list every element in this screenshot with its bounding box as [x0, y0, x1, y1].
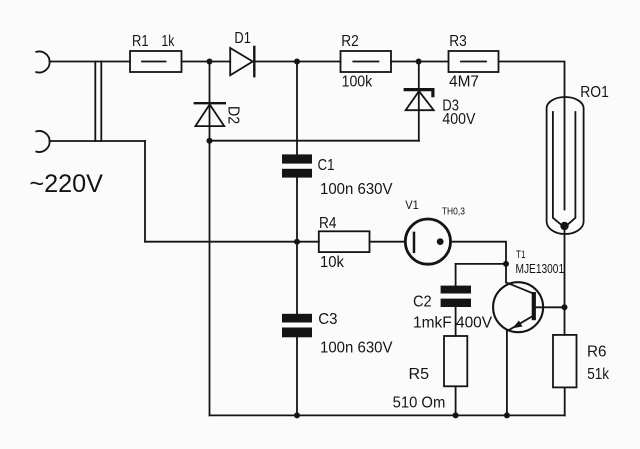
junction node R4 row	[294, 239, 300, 245]
svg-text:400V: 400V	[442, 111, 476, 128]
wire C1 bottom to C3 top	[296, 178, 298, 314]
wire R5 bottom stem	[455, 386, 457, 415]
mains cord double line	[95, 62, 101, 142]
svg-text:R2: R2	[341, 33, 359, 50]
resistor R1	[130, 51, 182, 72]
resistor R5	[444, 336, 467, 386]
junction node R5 bottom rail	[453, 412, 459, 418]
mains connector top contact	[36, 52, 49, 73]
svg-text:V1: V1	[405, 198, 419, 212]
wire node to R4	[297, 241, 319, 243]
svg-text:~220V: ~220V	[29, 171, 103, 198]
zener diode D2	[195, 62, 225, 141]
resistor R6	[553, 335, 577, 388]
wire R1 to D1	[182, 61, 231, 63]
svg-text:R4: R4	[319, 215, 337, 232]
svg-text:C2: C2	[413, 294, 432, 311]
transistor T1	[493, 282, 543, 332]
svg-text:1mkF 400V: 1mkF 400V	[413, 314, 493, 331]
svg-text:51k: 51k	[587, 366, 609, 383]
svg-text:R5: R5	[409, 366, 430, 383]
wire C2 top stem	[455, 264, 457, 286]
wire R4 to V1	[370, 241, 406, 243]
wire mains corner down left rail	[144, 141, 146, 242]
svg-text:100k: 100k	[342, 73, 373, 90]
junction node R2/R3/D3	[416, 59, 422, 65]
svg-text:100n 630V: 100n 630V	[320, 340, 393, 357]
svg-text:R3: R3	[449, 33, 467, 50]
wire C2 to R5	[455, 307, 457, 336]
wire C3 bottom stem	[296, 337, 298, 415]
junction node emitter bottom rail	[504, 412, 510, 418]
svg-text:R6: R6	[587, 344, 607, 361]
wire V1 to corner down	[451, 242, 507, 283]
wire D1 to R2	[254, 61, 340, 63]
svg-text:R1: R1	[132, 33, 149, 50]
wire top rail plug to R1	[50, 61, 131, 63]
svg-text:10k: 10k	[320, 254, 344, 271]
resistor R3	[449, 51, 499, 72]
svg-text:4M7: 4M7	[449, 73, 479, 90]
wire R3 to lamp corner	[499, 62, 565, 210]
wire bottom mains plug to corner	[50, 140, 146, 142]
svg-text:100n 630V: 100n 630V	[320, 181, 393, 198]
wire D2 node down to bottom rail	[209, 141, 211, 416]
svg-text:1k: 1k	[162, 33, 175, 50]
junction node D1/R2/C1	[294, 59, 300, 65]
resistor R4	[319, 231, 370, 252]
lamp RO1 inner electrode left	[553, 112, 562, 226]
capacitor C1	[282, 154, 312, 177]
resistor R2	[341, 51, 392, 72]
capacitor C2	[441, 286, 471, 307]
wire base T1 to node	[536, 306, 565, 308]
wire D2 to D3 bottom link	[210, 140, 420, 142]
svg-text:T1: T1	[516, 249, 526, 261]
wire C2 link	[456, 263, 506, 265]
capacitor C3	[282, 314, 312, 338]
svg-text:510 Om: 510 Om	[393, 395, 446, 412]
junction node C3 bottom rail	[294, 412, 300, 418]
svg-text:MJE13001: MJE13001	[516, 261, 565, 276]
lamp RO1 envelope	[547, 97, 584, 234]
lamp RO1 inner electrode right	[567, 112, 576, 226]
junction node R1/D1/D2	[207, 59, 213, 65]
wire left rail to R4 node	[145, 241, 297, 243]
mains connector bottom contact	[36, 131, 49, 152]
junction node base/lamp/R6	[562, 304, 568, 310]
zener diode D3	[405, 62, 434, 141]
wire bottom rail	[210, 414, 565, 416]
svg-text:D2: D2	[225, 106, 242, 124]
neon lamp V1	[405, 219, 450, 264]
svg-text:C1: C1	[318, 157, 335, 174]
junction node V1/C2/collector	[503, 261, 509, 267]
svg-text:C3: C3	[318, 311, 337, 328]
wire C1 top stem	[296, 62, 298, 155]
wire lamp bottom to base node	[564, 226, 566, 335]
junction node D2 bottom	[207, 138, 213, 144]
svg-text:D1: D1	[234, 30, 251, 47]
svg-text:TH0,3: TH0,3	[442, 207, 465, 218]
lamp RO1 inner junction dot	[560, 222, 568, 230]
svg-text:RO1: RO1	[580, 84, 609, 101]
wire R2 to R3	[391, 61, 449, 63]
diode D1	[230, 47, 254, 76]
wire R6 bottom stem	[564, 387, 566, 415]
wire emitter drop	[506, 331, 508, 415]
